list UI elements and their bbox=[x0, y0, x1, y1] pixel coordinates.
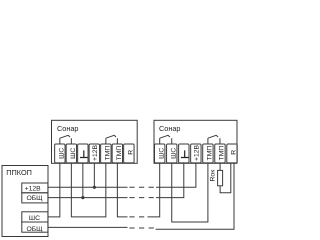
wire W1 +12В bus solid right with riser to +12В of Сонар #2 bbox=[156, 163, 196, 187]
wire drop from +12В of Сонар #1 bbox=[93, 163, 95, 187]
terminal ⊥ (common) of Сонар #2 bbox=[179, 144, 189, 163]
detector U2 box (Сонар #2) bbox=[154, 120, 237, 163]
wire W2 ОБЩ bus solid left bbox=[48, 197, 128, 199]
wire W1 +12В bus dashed middle bbox=[129, 186, 154, 188]
terminal ОБЩ (power common) of ППКОП bbox=[22, 193, 48, 203]
svg-text:ТМП: ТМП bbox=[104, 146, 111, 161]
label ⊥ terminal of Сонар #1 bbox=[80, 150, 88, 157]
svg-text:ШС: ШС bbox=[70, 148, 77, 159]
svg-text:Сонар: Сонар bbox=[159, 124, 180, 133]
switch contact S4 (ТМП tamper of Сонар #2) bbox=[208, 135, 220, 144]
svg-text:ОБЩ: ОБЩ bbox=[26, 195, 43, 202]
wire drop from ⊥ of Сонар #1 bbox=[82, 163, 84, 198]
terminal R of Сонар #1 bbox=[124, 144, 134, 163]
terminal R of Сонар #2 bbox=[227, 144, 237, 163]
svg-text:ШС: ШС bbox=[29, 215, 40, 222]
switch contact S3 (ШС relay of Сонар #2) bbox=[160, 135, 172, 144]
svg-text:ТМП: ТМП bbox=[207, 146, 214, 161]
svg-text:ППКОП: ППКОП bbox=[6, 168, 32, 177]
svg-text:ШС: ШС bbox=[58, 148, 65, 159]
svg-text:+12В: +12В bbox=[92, 144, 99, 161]
terminal ТМП-b of Сонар #2 bbox=[215, 144, 225, 163]
junction at ⊥ of Сонар #1 bbox=[81, 196, 84, 199]
wire W2 ОБЩ bus solid right with riser to ⊥ of Сонар #2 bbox=[156, 163, 184, 198]
label ⊥ terminal of Сонар #2 bbox=[181, 150, 189, 157]
terminal +12В of Сонар #2 bbox=[191, 144, 201, 163]
switch contact S2 (ТМП tamper of Сонар #1) bbox=[106, 135, 118, 144]
wire loop from ТМП-b of Сонар #1 solid bbox=[117, 163, 127, 217]
wire loop solid right rising to ШС-a of Сонар #2 bbox=[148, 163, 160, 217]
svg-text:Сонар: Сонар bbox=[57, 124, 78, 133]
junction at +12В of Сонар #1 bbox=[93, 186, 96, 189]
terminal ⊥ (common) of Сонар #1 bbox=[78, 144, 88, 163]
svg-text:ТМП: ТМП bbox=[219, 146, 226, 161]
wire loop ШС-b to ТМП-a of Сонар #1 bbox=[71, 163, 106, 217]
svg-text:R: R bbox=[231, 150, 238, 155]
wire drop from ТМП-b of Сонар #2 to resistor bbox=[219, 163, 221, 171]
switch contact S1 (ШС relay of Сонар #1) bbox=[60, 135, 72, 144]
terminal +12В of ППКОП bbox=[22, 183, 48, 193]
control panel box (ППКОП) bbox=[2, 166, 48, 237]
wire W4 ОБЩ return solid left bbox=[48, 226, 128, 228]
svg-text:Rок: Rок bbox=[209, 170, 216, 182]
terminal ТМП-b of Сонар #1 bbox=[112, 144, 122, 163]
svg-text:ОБЩ: ОБЩ bbox=[26, 226, 43, 233]
wire W1 +12В bus solid left bbox=[48, 186, 128, 188]
terminal +12В of Сонар #1 bbox=[89, 144, 99, 163]
wire loop dashed middle bbox=[129, 216, 145, 218]
terminal ТМП-a of Сонар #2 bbox=[203, 144, 213, 163]
svg-text:+12В: +12В bbox=[25, 186, 42, 193]
svg-text:+12В: +12В bbox=[193, 144, 200, 161]
terminal ШС-a of Сонар #1 bbox=[55, 144, 65, 163]
svg-text:ШС: ШС bbox=[170, 148, 177, 159]
terminal ОБЩ (loop return) of ППКОП bbox=[22, 222, 48, 232]
wire W4 ОБЩ return dashed middle bbox=[129, 227, 154, 229]
wire W3 ШС from ППКОП rising to ШС-a of Сонар #1 bbox=[48, 163, 60, 217]
terminal ШС-b of Сонар #2 bbox=[167, 144, 177, 163]
detector U1 box (Сонар #1) bbox=[52, 120, 138, 163]
terminal ШС-a of Сонар #2 bbox=[155, 144, 165, 163]
terminal ШС of ППКОП bbox=[22, 212, 48, 222]
wire W4 ОБЩ return solid right rising to box of Сонар #2 bbox=[156, 164, 234, 230]
svg-text:ТМП: ТМП bbox=[116, 146, 123, 161]
svg-text:ШС: ШС bbox=[158, 148, 165, 159]
svg-text:R: R bbox=[127, 150, 134, 155]
wire from resistor bottom to terminal R of Сонар #2 bbox=[220, 163, 231, 193]
wire loop ШС-b to ТМП-a of Сонар #2 bbox=[172, 163, 208, 222]
wire W2 ОБЩ bus dashed middle bbox=[129, 197, 154, 199]
resistor Rок (end-of-line) bbox=[218, 170, 223, 185]
terminal ТМП-a of Сонар #1 bbox=[101, 144, 111, 163]
terminal ШС-b of Сонар #1 bbox=[66, 144, 76, 163]
